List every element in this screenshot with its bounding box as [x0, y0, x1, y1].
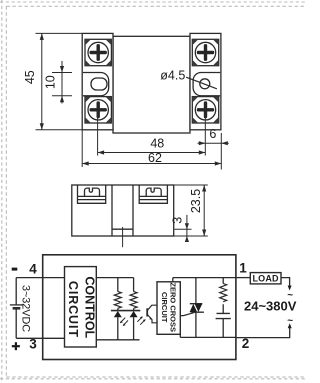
load wire top [236, 277, 250, 279]
svg-text:6: 6 [209, 127, 216, 141]
body right terminal column [190, 33, 221, 129]
dim 62 extension lines [82, 130, 221, 170]
phototransistor Q1 [146, 308, 148, 316]
right clamp plates [139, 196, 167, 199]
dim 23.5 arrows [202, 185, 206, 236]
dim 3 extension tick [174, 228, 191, 230]
dim 48 arrows [98, 150, 206, 154]
dim 23.5 line [203, 185, 205, 236]
LED D1 emission arrows [120, 318, 128, 326]
dim 48 line [98, 152, 206, 154]
dim 10 line [61, 61, 63, 104]
dim 3 arrows [185, 223, 189, 242]
dim 3 bottom tick [182, 235, 192, 237]
dim 23.5 extension bottom [174, 235, 208, 237]
terminal 3 wire [16, 337, 64, 339]
svg-text:3: 3 [171, 217, 185, 224]
input bottom rail [96, 339, 139, 341]
svg-text:2: 2 [242, 336, 250, 351]
svg-text:23.5: 23.5 [189, 189, 203, 213]
load wire right [281, 278, 290, 286]
dim 23.5 extension top [174, 184, 208, 186]
svg-text:1: 1 [239, 261, 247, 276]
resistor R2 [130, 292, 137, 309]
LED cathode bar [111, 310, 140, 312]
dim 62 arrows [82, 161, 221, 165]
svg-text:24~380V: 24~380V [244, 299, 297, 314]
dim 62 line [82, 163, 221, 165]
control circuit box [65, 267, 97, 347]
triac main wire [195, 278, 197, 338]
svg-text:3: 3 [29, 336, 37, 351]
center channel walls [112, 185, 133, 236]
label plus [12, 342, 20, 350]
svg-text:3~32VDC: 3~32VDC [19, 285, 31, 332]
svg-text:10: 10 [44, 75, 58, 89]
ac arrow up [288, 323, 292, 328]
zero cross circuit box [157, 282, 180, 335]
dim 6 arrows [199, 141, 228, 145]
load box [250, 273, 281, 284]
side body [72, 185, 174, 236]
dim 10 extension ticks [52, 73, 72, 96]
LED D1 [114, 311, 122, 317]
svg-text:45: 45 [23, 70, 37, 84]
opto light arrows [137, 317, 145, 325]
output bottom rail [180, 336, 236, 338]
resistor R2 branch wire [133, 278, 135, 340]
dim 48 extension lines [98, 111, 206, 156]
mounting hole circle o4.5 [200, 79, 210, 89]
snubber resistor [220, 284, 227, 302]
output top rail [173, 277, 236, 279]
svg-text:CIRCUIT: CIRCUIT [66, 281, 80, 338]
dim 45 line [41, 33, 43, 129]
right clamp screw profile [146, 188, 161, 196]
zero cross bottom connector [179, 334, 181, 337]
terminal 4 wire [16, 277, 64, 279]
resistor R1 [114, 292, 121, 309]
left slot inner stadium [91, 78, 107, 90]
resistor R1 branch wire [117, 278, 119, 340]
right mounting hole obround [193, 73, 220, 96]
svg-text:LOAD: LOAD [252, 274, 279, 284]
dim 6 line [198, 142, 229, 144]
left clamp screw profile [85, 188, 100, 196]
right clamp assembly box [139, 185, 167, 203]
channel step [112, 228, 133, 230]
battery plate long [10, 304, 23, 306]
triac bars [190, 304, 204, 313]
screw terminal top-right [192, 39, 218, 65]
snubber capacitor plates [216, 313, 231, 318]
input top rail [96, 277, 133, 279]
svg-text:CONTROL: CONTROL [83, 276, 97, 338]
body left terminal column [82, 33, 113, 129]
dim 3 line [186, 215, 188, 239]
dim 10 arrows [60, 66, 64, 102]
dim 45 extension lines [36, 33, 83, 129]
LED D2 [130, 311, 138, 317]
battery plate short [13, 307, 21, 310]
body center section [113, 36, 190, 133]
screw terminal top-left [85, 39, 111, 65]
svg-text:ZERO CROSS: ZERO CROSS [169, 282, 178, 332]
left clamp assembly box [78, 185, 106, 203]
left supply bus wire [15, 278, 17, 339]
label minus [12, 268, 18, 271]
svg-text:48: 48 [150, 136, 164, 150]
ac arrow down [288, 286, 292, 291]
svg-text:62: 62 [148, 151, 162, 165]
left clamp plates [78, 196, 106, 199]
dim 45 arrows [40, 33, 44, 129]
screw terminal bottom-right [192, 97, 218, 123]
svg-text:4: 4 [29, 261, 37, 276]
triac gate wire [180, 313, 194, 316]
screw terminal bottom-left [85, 97, 111, 123]
leader line for o4.5 [186, 77, 217, 89]
triac triangles [190, 304, 203, 313]
SSR outline box [43, 255, 236, 360]
left slot obround [83, 73, 109, 96]
channel center line [122, 227, 124, 247]
ac wire bottom [236, 327, 290, 337]
svg-text:ø4.5: ø4.5 [160, 69, 185, 83]
zero cross top connector [172, 278, 174, 282]
svg-text:CIRCUIT: CIRCUIT [160, 292, 169, 323]
snubber branch wire [222, 278, 224, 338]
